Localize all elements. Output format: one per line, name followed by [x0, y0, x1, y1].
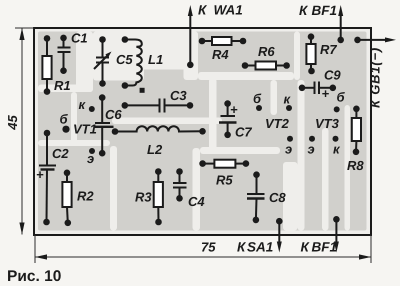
square pad of L1 — [140, 88, 145, 93]
svg-text:э: э — [285, 142, 292, 157]
svg-text:L1: L1 — [148, 52, 163, 67]
svg-text:BF1: BF1 — [312, 3, 338, 18]
board outline — [34, 28, 371, 235]
svg-text:R3: R3 — [135, 190, 152, 205]
svg-text:б: б — [253, 91, 262, 106]
node BF1 bottom pad — [333, 216, 340, 223]
capacitor C1 — [58, 38, 71, 71]
svg-text:Рис. 10: Рис. 10 — [7, 268, 61, 285]
inductor L2 — [115, 126, 203, 131]
svg-text:WA1: WA1 — [214, 3, 243, 18]
capacitor C9 — [302, 82, 333, 95]
left dim line vertical — [21, 28, 23, 235]
capacitor C6 — [94, 98, 114, 154]
svg-text:VT3: VT3 — [315, 116, 340, 131]
wire to BF1 bottom — [334, 219, 339, 252]
transistor VT3 pads — [334, 106, 340, 112]
svg-text:C3: C3 — [170, 88, 187, 103]
capacitor C4 — [173, 172, 187, 199]
svg-text:R5: R5 — [216, 173, 233, 188]
resistor R6 — [245, 62, 287, 70]
svg-text:+: + — [36, 167, 44, 182]
svg-text:R7: R7 — [320, 42, 337, 57]
svg-text:C9: C9 — [324, 68, 341, 83]
capacitor C3 — [125, 99, 190, 113]
foil gray field — [38, 32, 367, 231]
svg-text:R6: R6 — [258, 44, 275, 59]
transistor VT2 pads — [256, 105, 262, 111]
resistor R4 — [202, 37, 243, 45]
svg-text:+: + — [230, 102, 238, 117]
left dim extension top — [15, 27, 34, 29]
resistor R1 — [42, 38, 51, 91]
svg-text:К GB1(−): К GB1(−) — [368, 47, 383, 108]
svg-text:VT2: VT2 — [265, 116, 290, 131]
svg-text:VT1: VT1 — [73, 122, 97, 137]
svg-text:э: э — [308, 142, 315, 157]
wire to GB1 — [358, 37, 397, 42]
node GB1 pad — [354, 37, 361, 44]
inductor L1 — [125, 40, 142, 86]
node BF1 top pad — [337, 37, 344, 44]
left ext bottom — [34, 235, 36, 263]
svg-text:б: б — [60, 112, 69, 127]
capacitor C7 — [219, 104, 237, 135]
svg-text:R1: R1 — [54, 78, 71, 93]
right ext bottom — [370, 235, 372, 263]
resistor R7 — [306, 37, 315, 71]
resistor R8 — [352, 109, 361, 152]
svg-text:75: 75 — [201, 240, 216, 255]
bottom dim line — [35, 256, 371, 258]
node SA1 pad — [276, 218, 283, 225]
svg-text:C8: C8 — [269, 190, 286, 205]
svg-text:C7: C7 — [235, 125, 252, 140]
svg-text:C4: C4 — [188, 194, 205, 209]
resistor R2 — [62, 173, 71, 223]
resistor R3 — [154, 172, 163, 223]
svg-text:SA1: SA1 — [247, 240, 273, 255]
svg-text:C2: C2 — [52, 146, 69, 161]
svg-text:R8: R8 — [347, 158, 364, 173]
svg-text:C5: C5 — [116, 52, 133, 67]
capacitor C2 — [39, 133, 56, 222]
svg-text:45: 45 — [5, 115, 20, 131]
svg-text:BF1: BF1 — [312, 240, 338, 255]
svg-text:+: + — [322, 86, 330, 101]
capacitor C8 — [247, 175, 265, 220]
transistor VT1 pads — [89, 106, 95, 112]
svg-text:R4: R4 — [212, 47, 229, 62]
resistor R5 — [203, 160, 246, 168]
svg-text:L2: L2 — [147, 142, 163, 157]
node WA1 pad — [187, 62, 194, 69]
dim arrows — [19, 28, 24, 40]
wire to SA1 — [277, 221, 282, 252]
svg-text:C6: C6 — [105, 107, 122, 122]
trimmer capacitor C5 — [94, 40, 109, 84]
wire to BF1 top — [338, 5, 343, 40]
svg-text:C1: C1 — [71, 31, 88, 46]
wire to WA1 — [188, 5, 193, 65]
svg-text:R2: R2 — [77, 189, 94, 204]
svg-text:э: э — [87, 151, 94, 166]
foil gap channels (light) — [38, 32, 350, 231]
svg-text:б: б — [337, 90, 346, 105]
